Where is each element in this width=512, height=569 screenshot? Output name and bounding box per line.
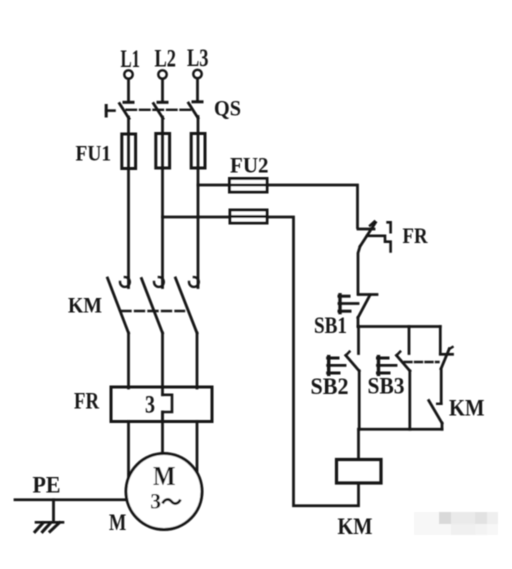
svg-text:QS: QS (214, 96, 241, 121)
svg-text:L1: L1 (121, 46, 141, 73)
svg-text:L3: L3 (187, 45, 209, 72)
svg-text:SB2: SB2 (311, 374, 349, 399)
svg-text:FR: FR (403, 223, 429, 248)
svg-text:SB3: SB3 (368, 374, 405, 399)
svg-text:FU1: FU1 (76, 141, 112, 166)
svg-text:3: 3 (150, 488, 161, 513)
svg-text:KM: KM (338, 514, 373, 539)
svg-text:3: 3 (145, 392, 155, 419)
svg-text:L2: L2 (155, 46, 177, 73)
svg-text:FR: FR (74, 389, 99, 414)
svg-text:KM: KM (68, 293, 102, 318)
svg-text:PE: PE (33, 473, 61, 498)
svg-text:M: M (153, 461, 176, 491)
svg-text:SB1: SB1 (314, 313, 347, 338)
svg-text:M: M (109, 510, 127, 535)
svg-text:FU2: FU2 (230, 153, 269, 178)
svg-text:KM: KM (449, 396, 485, 421)
